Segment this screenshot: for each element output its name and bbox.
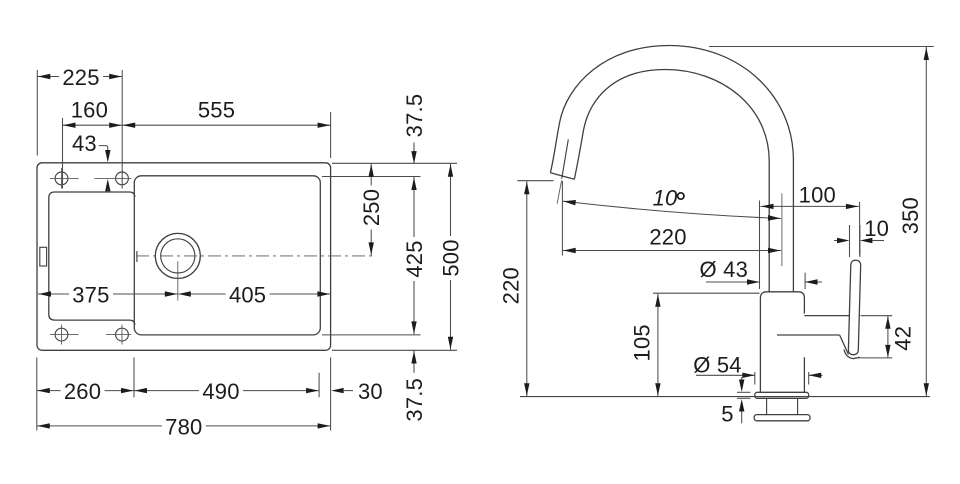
mounting hole H3 bbox=[50, 325, 79, 345]
svg-text:500: 500 bbox=[439, 239, 464, 276]
extension lines right of sink bbox=[322, 163, 457, 350]
mounting hole H4 bbox=[106, 325, 131, 345]
bowl centerline bbox=[136, 255, 374, 257]
extension lines bottom bbox=[37, 358, 331, 431]
svg-text:10: 10 bbox=[864, 216, 889, 241]
dimension 30 bbox=[331, 379, 383, 404]
dimension 160 bbox=[63, 98, 123, 128]
extension lines top bbox=[37, 70, 330, 189]
overflow slot bbox=[40, 247, 47, 266]
counter baseline bbox=[520, 396, 930, 398]
spout tip face bbox=[550, 173, 574, 180]
faucet body bbox=[760, 292, 804, 393]
body parting line bbox=[777, 334, 840, 336]
svg-text:220: 220 bbox=[499, 267, 524, 304]
dimension 10 bbox=[834, 216, 889, 257]
dimension diameter 54 bbox=[693, 352, 822, 384]
dimension 37.5 bottom bbox=[402, 351, 427, 427]
svg-text:Ø 54: Ø 54 bbox=[693, 352, 742, 377]
dimension 43 leader bbox=[72, 131, 111, 193]
dimension 425 bbox=[402, 177, 427, 334]
svg-text:105: 105 bbox=[629, 324, 654, 361]
dimension 500 bbox=[439, 164, 464, 350]
boss slant bbox=[840, 335, 849, 355]
svg-text:37.5: 37.5 bbox=[402, 378, 427, 422]
dimension 490 bbox=[134, 379, 319, 404]
handle lever bbox=[848, 260, 861, 355]
svg-text:490: 490 bbox=[202, 379, 239, 404]
dimension 5 bbox=[721, 377, 750, 427]
dimension 260 bbox=[37, 379, 134, 404]
svg-text:Ø 43: Ø 43 bbox=[700, 257, 749, 282]
svg-text:425: 425 bbox=[402, 240, 427, 277]
sink outer rim bbox=[37, 163, 331, 350]
mounting hole H1 bbox=[50, 168, 79, 189]
svg-text:43: 43 bbox=[72, 131, 97, 156]
svg-text:260: 260 bbox=[64, 379, 101, 404]
dimension diameter 43 bbox=[700, 257, 822, 289]
dimension 105 bbox=[629, 293, 759, 396]
dimension 37.5 top bbox=[402, 89, 427, 164]
svg-text:10: 10 bbox=[653, 186, 678, 211]
base flange bbox=[755, 392, 809, 398]
svg-text:375: 375 bbox=[72, 283, 109, 308]
svg-text:30: 30 bbox=[358, 379, 383, 404]
aerator line bbox=[562, 140, 569, 179]
dimension 225 bbox=[37, 65, 122, 90]
drain outer circle bbox=[155, 233, 200, 278]
svg-text:250: 250 bbox=[359, 189, 384, 226]
step mark bbox=[136, 251, 138, 262]
sink bowl bbox=[134, 176, 320, 335]
dimension 10 degrees bbox=[563, 186, 781, 222]
svg-text:42: 42 bbox=[890, 326, 915, 351]
dimension 42 bbox=[855, 316, 916, 358]
svg-text:555: 555 bbox=[198, 98, 235, 123]
dimension 350 bbox=[898, 47, 929, 396]
svg-text:225: 225 bbox=[62, 65, 99, 90]
svg-text:405: 405 bbox=[229, 283, 266, 308]
svg-text:37.5: 37.5 bbox=[402, 94, 427, 138]
dimension 100 bbox=[760, 182, 860, 289]
svg-text:220: 220 bbox=[649, 224, 686, 249]
svg-text:350: 350 bbox=[898, 197, 923, 234]
mounting hole H2 bbox=[95, 172, 132, 185]
locknut bbox=[754, 415, 810, 421]
drain vertical tick bbox=[177, 261, 179, 300]
svg-text:780: 780 bbox=[165, 414, 202, 439]
dimension 405 bbox=[178, 283, 330, 308]
dimension 375 bbox=[38, 283, 177, 308]
dimension 220 horizontal bbox=[562, 181, 781, 256]
angle vertex line bbox=[557, 181, 562, 204]
top extension line bbox=[709, 46, 934, 48]
faucet centerline bbox=[781, 193, 783, 266]
sink drainer bbox=[49, 192, 135, 325]
dimension 220 left bbox=[499, 181, 554, 397]
shank bbox=[767, 398, 798, 414]
svg-text:160: 160 bbox=[71, 98, 108, 123]
dimension 250 bbox=[359, 164, 384, 256]
boss top line bbox=[804, 315, 849, 317]
spout inner wall bbox=[574, 70, 769, 292]
dimension 555 bbox=[122, 98, 330, 128]
drain inner circle bbox=[161, 239, 195, 273]
handle bell bbox=[844, 350, 860, 359]
svg-text:5: 5 bbox=[721, 402, 733, 427]
svg-text:100: 100 bbox=[799, 182, 836, 207]
spout outer wall bbox=[550, 46, 793, 292]
dimension 780 bbox=[37, 414, 331, 439]
